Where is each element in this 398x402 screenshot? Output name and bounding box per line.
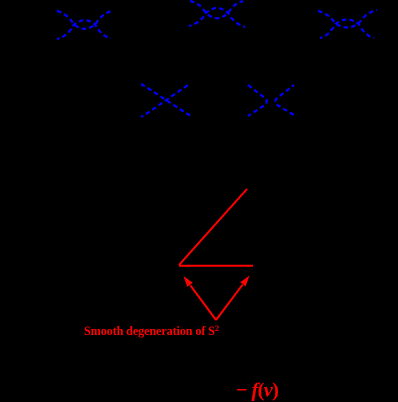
level curve pair 1 (top-left lens): hill branch <box>57 20 111 39</box>
level curve pair 2 (top-middle lens): valley branch <box>190 1 243 18</box>
red horizontal segment <box>179 265 253 267</box>
level curve pair 3 (top-right lens): hill branch <box>320 20 374 39</box>
red arrow right (from V vertex up-right) <box>216 285 243 320</box>
smoothed pair (middle-right): right branch < <box>275 85 294 115</box>
svg-text:Smooth degeneration of S2: Smooth degeneration of S2 <box>84 323 219 338</box>
svg-text:− f(v): − f(v) <box>236 380 278 402</box>
level curve pair 2 (top-middle lens): hill branch <box>189 8 245 27</box>
red arrow left (from V vertex up-left) <box>191 286 217 321</box>
level curve pair 1 (top-left lens): valley branch <box>57 11 112 29</box>
degenerate crossing X (middle-left): line LL-UR <box>141 84 190 117</box>
smoothed pair (middle-right): left branch > <box>248 85 267 116</box>
red diagonal pointer line <box>179 189 247 265</box>
degenerate crossing X (middle-left): line UL-LR <box>141 84 191 116</box>
level curve pair 3 (top-right lens): valley branch <box>318 10 377 28</box>
